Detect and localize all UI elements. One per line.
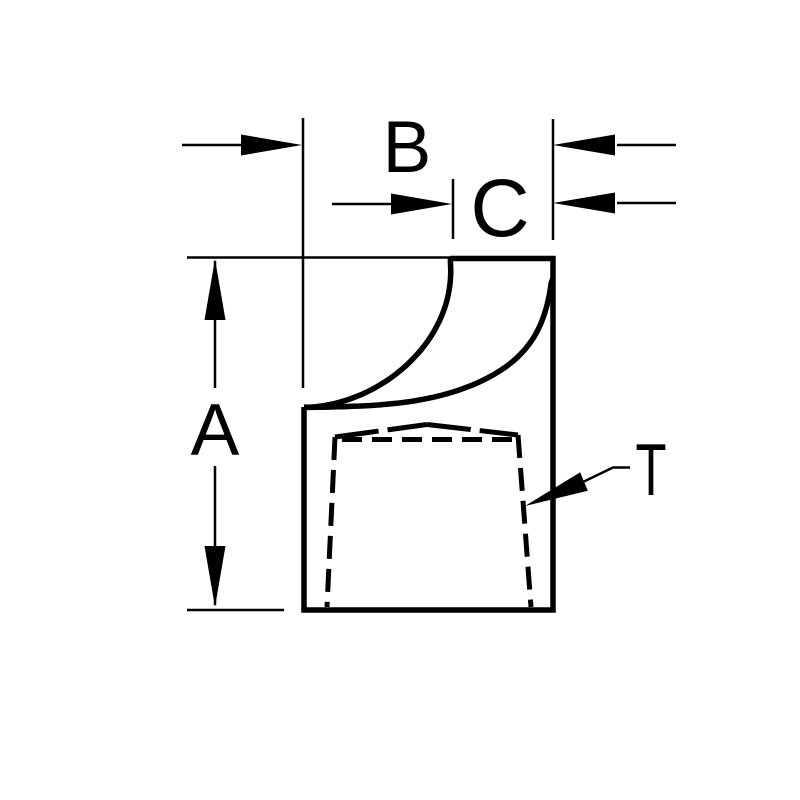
svg-text:T: T [636, 430, 667, 511]
svg-text:B: B [383, 107, 432, 188]
svg-text:C: C [470, 163, 529, 254]
svg-text:A: A [191, 390, 240, 471]
